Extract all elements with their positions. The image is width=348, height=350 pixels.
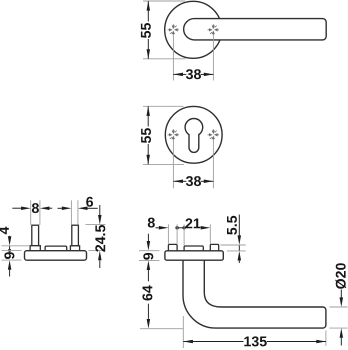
right tab on plate [210,244,218,251]
dimension 24.5 label [95,226,106,249]
dimension 64 label [142,285,152,300]
dimension 38 (top drawing) dimension line and arrows [173,73,213,75]
dimension 4 dimension line with down arrow and dot [9,235,11,238]
dimension 55 (top drawing) label [141,23,151,38]
lever bar (front view) [184,19,327,40]
dimension 55 (middle drawing) dimension line and arrows [147,106,149,164]
dimension 21 label [186,218,201,228]
left fixing pin collar [30,246,40,252]
fixing point cross left (escutcheon) [168,129,179,140]
dimension 38 (middle drawing) dimension line and arrows [173,180,213,182]
rose base plate (side view) [25,251,87,261]
dimension Ø20 extension lines [329,307,347,328]
dimension 135 extension lines [183,316,326,348]
dimension 4 label [0,227,9,235]
right fixing pin shaft [72,225,79,246]
dimension 9 (lever drawing) top arrow [147,234,149,241]
dimension 24.5 extension lines [86,225,106,251]
dimension 38 (middle drawing) label [186,176,201,186]
dimension 5.5 label [227,216,237,235]
dimension 8 dimension line and arrows [12,207,21,209]
dimension 8/21 dots [177,227,184,229]
dimension 55 (top drawing) dimension line and arrows [147,1,149,59]
rose circle (front view) [165,1,222,58]
euro profile cylinder hole [185,119,203,153]
center hump on plate (side view) [184,246,203,251]
dimension 64 top arrow (shared) [147,260,151,270]
dimension 24.5 dimension line and arrows [99,205,101,215]
dimension 55 (middle drawing) extension lines [143,106,184,164]
dimension Ø20 dimension line and arrows [340,290,342,298]
dimension 6 label [86,197,93,207]
dimension 38 (top drawing) extension lines [173,35,213,81]
dimension 9 (lever drawing) label [143,253,153,260]
dimension 55 (top drawing) extension lines [143,1,186,59]
center hump on plate [45,246,67,251]
dimension 38 (top drawing) label [186,69,201,79]
dimension 38 (middle drawing) extension lines [173,140,213,189]
right fixing pin collar [70,246,79,251]
left tab on plate [168,244,177,251]
rose plate (side view, lever drawing) [165,251,223,260]
dimension 5.5 extension lines [221,245,246,251]
dimension 8 label [32,203,39,213]
dimension 135 label [244,336,266,346]
dimension 135 dimension line and arrows [183,341,326,343]
dimension 9 extension line [2,259,22,261]
dimension Ø20 label [335,263,346,289]
fixing point cross right (top view) [208,24,219,35]
dimension 8 (lever drawing) label [148,218,155,228]
dimension 8 extension lines [31,200,40,225]
dimension 5.5 dimension line and arrows [238,215,240,236]
fixing point cross right (escutcheon) [208,129,219,140]
dimension 9 bottom arrow [8,260,12,270]
left fixing pin shaft [32,225,39,246]
extension lines for 8 and 21 (lever drawing) [168,224,210,245]
dimension 55 (middle drawing) label [141,128,151,143]
dimension 6 dimension line and arrows [58,207,62,209]
dimension 8 (lever drawing) dimension line, arrow [156,227,159,229]
dimension 9 label [4,252,14,259]
dimension 64 lower line and bottom arrow [147,304,149,319]
dimension 9 (lever drawing) extension lines [139,251,160,261]
lever handle L-shape (side view) [183,260,326,329]
dimension 6 extension lines [71,200,78,225]
fixing point cross left (top view) [168,24,179,35]
dimension 21 arrow [201,226,211,230]
dimension 4 extension lines [2,246,29,251]
escutcheon circle [165,106,222,163]
dimension 64 extension line [140,328,183,330]
